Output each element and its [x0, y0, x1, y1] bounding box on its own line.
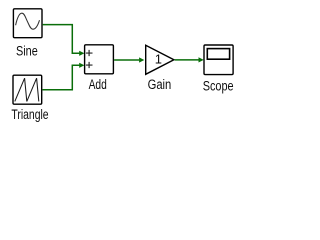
svg-text:Sine: Sine: [16, 44, 38, 59]
scope screen: [207, 49, 229, 60]
svg-text:Gain: Gain: [148, 77, 172, 92]
arrowhead into Add input 2: [79, 63, 84, 68]
plus sign input 2: [86, 62, 93, 68]
svg-text:Scope: Scope: [203, 78, 234, 93]
block Scope: [204, 45, 233, 75]
block Sine: [13, 9, 42, 38]
wire from Triangle to Add input 2: [42, 65, 79, 90]
svg-text:Triangle: Triangle: [11, 107, 48, 122]
sine wave icon: [16, 13, 40, 29]
block Gain (triangle): [146, 45, 174, 74]
arrowhead into Add input 1: [79, 51, 84, 56]
triangle wave icon: [15, 78, 39, 101]
block Triangle: [13, 75, 42, 104]
svg-text:Add: Add: [89, 77, 107, 92]
wire from Gain to Scope: [175, 59, 200, 61]
svg-text:1: 1: [155, 52, 162, 67]
wire from Sine to Add input 1: [43, 25, 80, 54]
arrowhead into Scope: [199, 57, 204, 62]
plus sign input 1: [86, 50, 93, 56]
wire from Add to Gain: [114, 59, 139, 61]
block Add: [85, 45, 114, 74]
arrowhead into Gain: [139, 57, 144, 62]
